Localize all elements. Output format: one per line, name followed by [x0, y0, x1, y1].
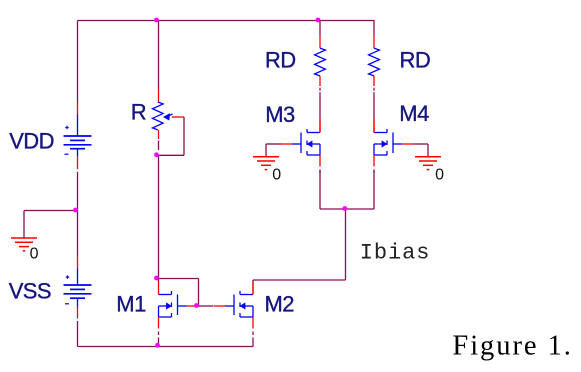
svg-text:0: 0 — [30, 245, 39, 262]
svg-text:Ibias: Ibias — [360, 240, 431, 265]
svg-text:VDD: VDD — [9, 128, 54, 153]
svg-text:Figure 1.: Figure 1. — [452, 330, 572, 361]
svg-text:M3: M3 — [265, 102, 295, 127]
svg-text:R: R — [131, 100, 147, 125]
svg-text:0: 0 — [435, 166, 444, 183]
svg-text:M1: M1 — [116, 291, 146, 316]
svg-text:RD: RD — [400, 48, 431, 73]
svg-text:VSS: VSS — [9, 278, 51, 303]
svg-text:0: 0 — [272, 166, 281, 183]
svg-text:M4: M4 — [399, 101, 429, 126]
svg-text:RD: RD — [265, 48, 296, 73]
svg-text:M2: M2 — [265, 291, 295, 316]
